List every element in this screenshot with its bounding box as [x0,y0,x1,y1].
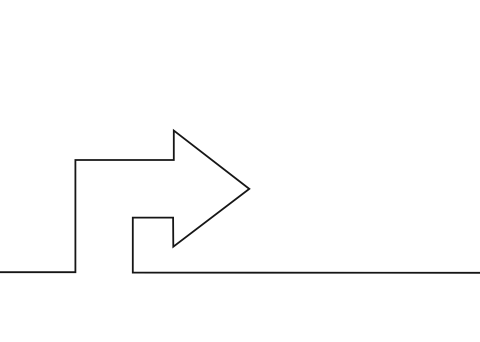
continuous one-line arrow outline (single stroke from left edge to right edge) [0,131,480,273]
